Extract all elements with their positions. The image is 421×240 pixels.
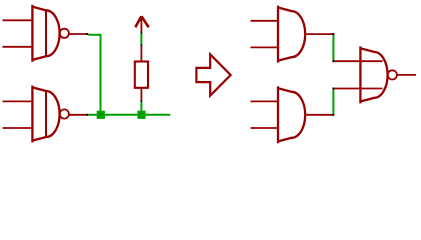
U1B input pin 1	[3, 100, 33, 102]
U1A output pin end dot	[86, 33, 88, 35]
U2B output pin end dot	[332, 114, 334, 116]
U1B output pin	[69, 114, 86, 116]
nand gate U1B (open-collector)	[32, 86, 59, 143]
U3 output pin	[397, 74, 416, 76]
wire from resistor to junction	[140, 102, 142, 111]
resistor pin end dot (top)	[141, 45, 143, 47]
U3 input pin 2 end dot	[332, 88, 334, 90]
equivalence block arrow	[196, 54, 230, 95]
U1A input pin 1	[3, 19, 33, 21]
resistor R1 (pull-up)	[135, 46, 148, 100]
U1B output pin end dot	[86, 114, 88, 116]
output wire stub	[146, 114, 171, 116]
U3 input pin 2	[334, 88, 382, 90]
U3 input pin 1 end dot	[332, 60, 334, 62]
wire from U1B output to junction	[88, 114, 96, 116]
supply pin end dot	[141, 32, 143, 34]
U1A input pin 2	[3, 46, 33, 48]
wire from U1A output down to wired-AND node	[88, 35, 100, 111]
wire from supply to resistor	[140, 34, 142, 45]
U2B output pin	[305, 114, 332, 116]
junction dot (wired-AND node)	[97, 111, 105, 119]
U2B input pin 2	[251, 127, 279, 129]
VCC supply arrow symbol	[135, 16, 148, 32]
and gate U2A	[278, 6, 305, 63]
wire between junctions	[105, 114, 137, 116]
U2A output pin	[305, 33, 332, 35]
junction dot (pull-up connection)	[137, 111, 145, 119]
U3 input pin 1	[334, 60, 382, 62]
U2B input pin 1	[251, 100, 279, 102]
resistor pin end dot (bottom)	[141, 100, 143, 102]
U2A output pin end dot	[332, 33, 334, 35]
nand gate U3	[360, 46, 387, 103]
U1B input pin 2	[3, 127, 33, 129]
wire from U2A output to U3 input 1	[332, 35, 334, 60]
and gate U2B	[278, 86, 305, 143]
U2A input pin 2	[251, 46, 279, 48]
wire from U2B output to U3 input 2	[332, 89, 334, 114]
nand gate U1A (open-collector)	[32, 5, 59, 62]
U2A input pin 1	[251, 20, 279, 22]
U1A output pin	[69, 33, 86, 35]
